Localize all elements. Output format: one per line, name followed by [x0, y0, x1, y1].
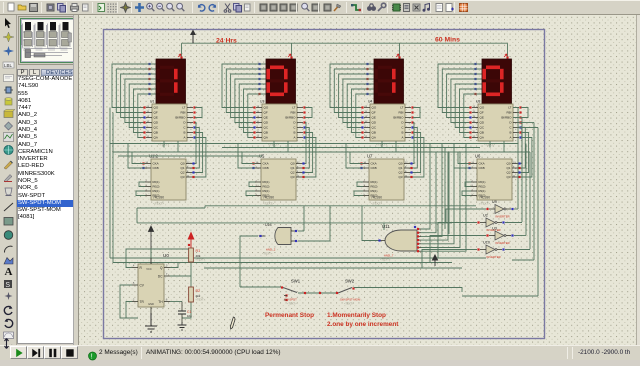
svg-text:<TEXT>: <TEXT> — [287, 302, 297, 306]
svg-text:QO: QO — [480, 106, 485, 110]
svg-text:74LS90: 74LS90 — [479, 196, 490, 200]
wire bundle: counter outputs to decoder col 3 — [410, 123, 414, 164]
svg-text:QB: QB — [372, 131, 376, 135]
svg-text:R9(1): R9(1) — [263, 189, 270, 193]
inverter U9 — [495, 205, 504, 214]
svg-text:QE: QE — [480, 116, 484, 120]
svg-text:<TEXT>: <TEXT> — [196, 298, 206, 302]
wire: top VCC rail — [182, 42, 508, 44]
svg-text:QO: QO — [264, 106, 269, 110]
svg-text:B: B — [509, 131, 511, 135]
svg-text:DC: DC — [158, 274, 163, 278]
status message — [88, 348, 98, 358]
svg-text:R0(1): R0(1) — [153, 180, 160, 184]
svg-text:A: A — [293, 136, 295, 140]
preview pane — [18, 16, 78, 65]
svg-text:U2: U2 — [483, 214, 488, 218]
svg-text:U0: U0 — [163, 253, 169, 258]
svg-text:LT: LT — [400, 106, 403, 110]
svg-text:R0(2): R0(2) — [371, 185, 378, 189]
svg-text:CKB: CKB — [479, 166, 485, 170]
svg-text:CKA: CKA — [479, 162, 485, 166]
ground symbol under C1 — [178, 322, 187, 330]
svg-text:QF: QF — [372, 111, 376, 115]
wire: U11 output — [362, 206, 378, 241]
svg-text:U14: U14 — [265, 223, 272, 227]
svg-text:1.Momentarily Stop: 1.Momentarily Stop — [327, 312, 386, 319]
P L buttons and DEVICES header — [17, 69, 28, 76]
display pin state dots col 1 — [151, 63, 156, 65]
svg-text:LT: LT — [182, 106, 185, 110]
svg-text:74LS90: 74LS90 — [263, 196, 274, 200]
stop button — [61, 346, 78, 359]
svg-text:<TEXT>: <TEXT> — [479, 202, 490, 206]
ground symbol under 555 — [145, 313, 157, 332]
7447 decoder U4 — [370, 104, 405, 141]
red arrow at display top col 3 — [396, 54, 399, 57]
svg-text:2k2: 2k2 — [196, 294, 201, 298]
svg-text:RBI: RBI — [180, 111, 185, 115]
svg-text:R0(1): R0(1) — [371, 180, 378, 184]
wire bundle: 7447 outputs to display col 1 — [112, 64, 155, 108]
pause button — [44, 346, 61, 359]
74LS90 counter U6 — [477, 159, 512, 200]
svg-text:U3: U3 — [260, 100, 264, 104]
wire: inverter U9 output — [514, 208, 518, 210]
svg-text:Q3: Q3 — [398, 175, 402, 179]
svg-text:U7: U7 — [367, 154, 373, 159]
inverter U10 — [486, 245, 495, 254]
svg-text:BI/RBO: BI/RBO — [175, 116, 186, 120]
svg-text:QB: QB — [480, 131, 484, 135]
74LS90 counter U7 — [369, 159, 404, 200]
svg-text:R0(1): R0(1) — [263, 180, 270, 184]
svg-text:QF: QF — [154, 111, 158, 115]
svg-text:QO: QO — [154, 106, 159, 110]
svg-text:TR: TR — [140, 300, 145, 304]
red arrow at display top col 4 — [504, 54, 507, 57]
power arrow on rail — [192, 33, 194, 43]
svg-text:SW-SPDT: SW-SPDT — [284, 298, 297, 302]
red arrow at display top col 2 — [288, 54, 291, 57]
wire: long horizontal runs — [110, 143, 518, 145]
svg-text:S: S — [5, 282, 10, 289]
svg-text:RBI: RBI — [290, 111, 295, 115]
7447 decoder U3 — [262, 104, 297, 141]
svg-text:Q0: Q0 — [290, 162, 294, 166]
left tool column — [0, 15, 17, 345]
wire bundle: counter outputs to decoder col 1 — [192, 123, 196, 164]
svg-text:Permenant Stop: Permenant Stop — [265, 312, 314, 319]
toolbar icons — [6, 2, 17, 13]
wire: inverter U10 output — [505, 249, 530, 251]
svg-text:Q0: Q0 — [180, 162, 184, 166]
wire: clock feed col 1 — [132, 152, 145, 164]
svg-text:<TEXT>: <TEXT> — [344, 302, 354, 306]
wire: reset pin hooks col 4 — [465, 182, 471, 187]
svg-text:Q3: Q3 — [290, 175, 294, 179]
power arrow R1 top — [188, 233, 194, 249]
svg-text:Q1: Q1 — [506, 166, 510, 170]
display pin state dots col 2 — [261, 63, 266, 65]
svg-text:74LS90: 74LS90 — [153, 196, 164, 200]
svg-text:A: A — [183, 136, 185, 140]
resistor R2 — [189, 287, 194, 302]
svg-text:CKA: CKA — [153, 162, 159, 166]
svg-text:U11: U11 — [382, 224, 390, 229]
svg-text:Q2: Q2 — [290, 171, 294, 175]
svg-text:<TEXT>: <TEXT> — [263, 202, 274, 206]
74LS90 counter U1:2 — [151, 159, 186, 200]
svg-text:R0(2): R0(2) — [479, 185, 486, 189]
svg-text:R2: R2 — [196, 289, 201, 293]
wire bundle: 7447 outputs to display col 3 — [330, 64, 373, 108]
devices list — [17, 76, 78, 344]
wire: rail drop col 2 — [291, 43, 293, 59]
svg-text:<TEXT>: <TEXT> — [380, 258, 391, 262]
wire: left edge verticals — [109, 108, 111, 259]
wire: clock feed col 3 — [350, 152, 363, 164]
svg-text:B: B — [183, 131, 185, 135]
svg-text:SW-SPST-MOM: SW-SPST-MOM — [340, 298, 361, 302]
wire: inverter U3 input — [430, 236, 486, 263]
svg-text:R9(1): R9(1) — [479, 189, 486, 193]
svg-text:R0(1): R0(1) — [479, 180, 486, 184]
svg-text:INVERTER: INVERTER — [496, 215, 510, 219]
wire: inverter U2 input — [438, 223, 477, 259]
svg-text:QA: QA — [480, 136, 484, 140]
wire: LT/BI loop col 2 — [305, 108, 312, 118]
svg-text:R9(1): R9(1) — [371, 189, 378, 193]
resistor R1 — [189, 248, 194, 262]
schematic sheet border — [104, 30, 545, 339]
svg-text:QA: QA — [372, 136, 376, 140]
svg-text:R0(2): R0(2) — [153, 185, 160, 189]
7447 decoder U8 — [478, 104, 513, 141]
svg-text:CKA: CKA — [371, 162, 377, 166]
inverter U3 — [495, 231, 504, 240]
svg-text:<TEXT>: <TEXT> — [262, 252, 273, 256]
svg-text:R1: R1 — [196, 249, 201, 253]
wire: inverter U10 input — [422, 250, 477, 269]
7seg display DISP4 — [482, 59, 512, 104]
svg-text:QF: QF — [264, 111, 268, 115]
svg-text:LBL: LBL — [4, 63, 13, 68]
pencil cursor — [230, 317, 235, 329]
wire: rail drop col 4 — [507, 43, 509, 59]
svg-text:QA: QA — [154, 136, 158, 140]
svg-text:U4: U4 — [368, 100, 372, 104]
7447 decoder U1 — [152, 104, 187, 141]
wire: U11 inputs fan — [417, 228, 421, 230]
wire: LT/BI loop col 3 — [413, 108, 420, 118]
svg-text:A: A — [509, 136, 511, 140]
inverter U2 — [486, 218, 495, 227]
svg-text:60 Mins: 60 Mins — [435, 37, 460, 44]
wire: 555 left loops — [126, 249, 191, 268]
wire: inverter U9 input — [446, 209, 486, 223]
wire: reset pin hooks col 1 — [139, 182, 145, 187]
svg-text:R9(1): R9(1) — [153, 189, 160, 193]
top toolbar — [0, 0, 640, 15]
555 timer U0 — [138, 264, 164, 307]
status bar — [0, 345, 640, 360]
svg-text:74LS90: 74LS90 — [371, 196, 382, 200]
wire bundle: counter outputs to decoder col 4 — [518, 123, 522, 164]
svg-text:RBI: RBI — [398, 111, 403, 115]
svg-text:B: B — [401, 131, 403, 135]
svg-text:Q3: Q3 — [506, 175, 510, 179]
svg-text:CKB: CKB — [371, 166, 377, 170]
wire: inverter U2 output — [505, 222, 522, 224]
7seg display DISP1 — [156, 59, 186, 104]
wire: reset pin hooks col 2 — [249, 182, 255, 187]
svg-text:BI/RBO: BI/RBO — [285, 116, 296, 120]
AND gate U14 — [275, 228, 291, 245]
svg-text:U10: U10 — [483, 241, 490, 245]
wire: inverter U3 output — [514, 235, 526, 237]
svg-text:U6: U6 — [475, 154, 481, 159]
svg-text:LT: LT — [508, 106, 511, 110]
svg-text:BI/RBO: BI/RBO — [501, 116, 512, 120]
svg-text:U8: U8 — [476, 100, 480, 104]
wire: U14 connections — [298, 230, 304, 232]
7seg display DISP2 — [266, 59, 296, 104]
wire: 555 right connections — [170, 262, 178, 268]
wire bundle: right side verticals — [517, 108, 519, 210]
power arrow near U11 — [432, 255, 437, 266]
svg-text:Q2: Q2 — [506, 171, 510, 175]
wire bundle: 7447 outputs to display col 4 — [438, 64, 481, 108]
wire bundle: 7447 outputs to display col 2 — [222, 64, 265, 108]
svg-text:CKB: CKB — [263, 166, 269, 170]
svg-text:Q3: Q3 — [180, 175, 184, 179]
svg-text:<TEXT>: <TEXT> — [196, 258, 206, 262]
svg-text:VCC: VCC — [146, 267, 152, 271]
svg-text:QO: QO — [372, 106, 377, 110]
svg-text:U1: U1 — [150, 100, 154, 104]
svg-text:QE: QE — [372, 116, 376, 120]
display pin state dots col 3 — [369, 63, 374, 65]
74LS90 counter U5 — [261, 159, 296, 200]
svg-text:QE: QE — [264, 116, 268, 120]
wire: reset pin hooks col 3 — [357, 182, 363, 187]
svg-text:Q2: Q2 — [180, 171, 184, 175]
svg-text:QF: QF — [480, 111, 484, 115]
svg-text:A: A — [5, 266, 13, 277]
wire: rail drop col 3 — [399, 43, 401, 59]
step button — [27, 346, 44, 359]
svg-text:10u: 10u — [187, 314, 192, 318]
svg-text:TH: TH — [158, 300, 163, 304]
wire: clock feed col 2 — [242, 152, 255, 164]
svg-text:Q2: Q2 — [398, 171, 402, 175]
7seg display DISP3 — [374, 59, 404, 104]
svg-text:CKA: CKA — [263, 162, 269, 166]
wire: LT/BI loop col 1 — [195, 108, 202, 118]
wire: misc verticals — [163, 141, 165, 148]
wire: LT/BI loop col 4 — [521, 108, 528, 118]
wire bundle: counter outputs to decoder col 2 — [302, 123, 306, 164]
power arrow col1 VCC — [148, 226, 153, 264]
svg-text:40k: 40k — [196, 254, 201, 258]
svg-text:QB: QB — [154, 131, 158, 135]
red arrow at display top col 1 — [178, 54, 181, 57]
svg-text:B: B — [293, 131, 295, 135]
play button — [10, 346, 27, 359]
svg-text:A: A — [401, 136, 403, 140]
svg-text:U3: U3 — [492, 227, 497, 231]
svg-text:LT: LT — [292, 106, 295, 110]
svg-text:Q1: Q1 — [290, 166, 294, 170]
panel splitter — [73, 15, 79, 345]
svg-text:BI/RBO: BI/RBO — [393, 116, 404, 120]
svg-text:R0(2): R0(2) — [263, 185, 270, 189]
svg-text:QB: QB — [264, 131, 268, 135]
svg-text:RBI: RBI — [506, 111, 511, 115]
capacitor C1 — [181, 302, 183, 312]
svg-text:SW2: SW2 — [345, 279, 355, 284]
svg-text:INVERTER: INVERTER — [496, 241, 510, 245]
svg-text:CKB: CKB — [153, 166, 159, 170]
svg-text:QA: QA — [264, 136, 268, 140]
svg-text:Q1: Q1 — [398, 166, 402, 170]
svg-text:U9: U9 — [492, 200, 497, 204]
svg-text:INVERTER: INVERTER — [487, 255, 501, 259]
svg-text:QE: QE — [154, 116, 158, 120]
svg-text:Q0: Q0 — [506, 162, 510, 166]
wire: clock feed col 4 — [458, 152, 471, 164]
display pin state dots col 4 — [477, 63, 482, 65]
svg-text:<TEXT>: <TEXT> — [371, 202, 382, 206]
svg-text:2.one by one increment: 2.one by one increment — [327, 321, 399, 328]
svg-text:SW1: SW1 — [291, 279, 301, 284]
svg-text:Q1: Q1 — [180, 166, 184, 170]
svg-text:<TEXT>: <TEXT> — [153, 202, 164, 206]
AND gate U11 — [385, 230, 417, 251]
svg-text:24 Hrs: 24 Hrs — [216, 38, 237, 45]
svg-text:GND: GND — [148, 302, 154, 306]
svg-text:Q0: Q0 — [398, 162, 402, 166]
wire: rail drop col 1 — [181, 43, 183, 59]
